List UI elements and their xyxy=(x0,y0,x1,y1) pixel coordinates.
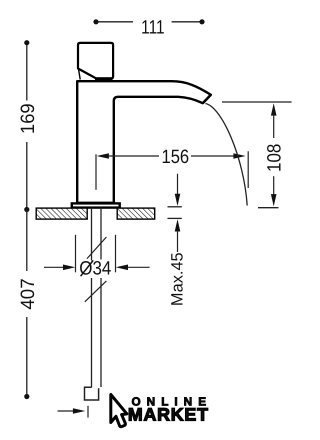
handle bottom thick edge xyxy=(95,77,113,80)
108 upper arrowhead xyxy=(271,103,277,115)
dimension 169 line lower segment xyxy=(26,142,28,210)
water stream curve xyxy=(206,104,248,206)
dimension 111 right dot xyxy=(199,19,204,24)
Ø34 left arrowhead xyxy=(63,265,75,271)
156 extension line (faucet axis) xyxy=(95,154,97,190)
svg-text:Max.45: Max.45 xyxy=(168,252,186,306)
108 lower arrowhead xyxy=(271,194,277,206)
bottom reference arrow line xyxy=(58,410,75,412)
dimension 407 line upper segment xyxy=(26,210,28,272)
faucet body and spout outline xyxy=(77,81,211,203)
dimension 111 top line left segment xyxy=(96,21,133,23)
shank tube left line lower xyxy=(91,278,93,388)
Max.45 upper arrow line xyxy=(177,174,179,195)
faucet handle xyxy=(78,43,113,79)
handle chamfer sliver line xyxy=(79,70,81,80)
svg-text:111: 111 xyxy=(141,17,164,38)
Max.45 lower arrow line xyxy=(177,231,179,253)
rod foot bracket xyxy=(85,387,99,400)
shank tube left line upper xyxy=(91,208,93,261)
bottom reference tick xyxy=(87,406,89,418)
shank tube right line upper xyxy=(100,208,102,260)
dimension 407 bottom dot xyxy=(24,394,29,399)
108 bottom tick xyxy=(258,207,279,209)
Max.45 counter bottom tick xyxy=(168,217,182,219)
svg-text:O34: O34 xyxy=(79,259,111,280)
lower break slash xyxy=(85,281,107,302)
Max.45 counter top tick xyxy=(168,206,182,208)
svg-text:MARKET: MARKET xyxy=(128,405,209,425)
dimension 169 line upper segment xyxy=(26,43,28,101)
Max.45 upper arrowhead xyxy=(175,194,181,206)
dimension 156 line left arrowhead xyxy=(97,153,109,159)
Ø34 right arrowhead xyxy=(116,265,128,271)
Ø34 left extension tick xyxy=(75,235,77,272)
dimension 169 top dot xyxy=(24,40,29,45)
svg-text:407: 407 xyxy=(18,278,39,309)
108 top reference line xyxy=(222,101,292,103)
dimension 156 line left segment xyxy=(108,155,159,157)
Max.45 lower arrowhead xyxy=(175,219,181,231)
countertop right hatched section xyxy=(117,208,155,219)
Ø34 left arrow line xyxy=(44,266,64,268)
dimension 111 left dot xyxy=(93,19,98,24)
Ø34 right extension tick xyxy=(115,235,117,272)
dimension 407 line lower segment xyxy=(26,317,28,397)
108 vertical line upper segment xyxy=(273,114,275,138)
bottom reference arrowhead xyxy=(73,408,85,414)
upper break slash xyxy=(87,237,106,259)
dimension 156 line right segment xyxy=(191,155,235,157)
diameter slash through O xyxy=(81,260,94,276)
svg-text:169: 169 xyxy=(18,103,39,134)
svg-text:156: 156 xyxy=(161,147,189,168)
countertop left hatched section xyxy=(36,208,87,219)
svg-text:108: 108 xyxy=(264,144,285,172)
base flange xyxy=(72,203,120,207)
shank tube right line lower xyxy=(100,278,102,387)
logo cursor icon xyxy=(111,395,127,427)
dimension 156 right arrowhead xyxy=(233,153,245,159)
spout tip face xyxy=(203,95,211,103)
Ø34 right arrow line xyxy=(127,266,150,268)
shared dot between 169 and 407 xyxy=(24,207,29,212)
156 end extension tick xyxy=(247,151,249,188)
dimension 111 top line right segment xyxy=(172,21,202,23)
108 vertical line lower segment xyxy=(273,176,275,196)
